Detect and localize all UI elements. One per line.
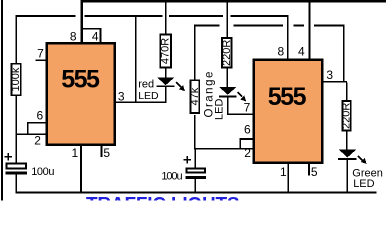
pin 7 stub U1 [35, 59, 46, 61]
pin 2 wire U2 [194, 148, 253, 150]
wire 47k to pins 2/6 U2 [194, 115, 195, 149]
svg-text:LED: LED [214, 99, 226, 120]
svg-text:8: 8 [278, 45, 285, 59]
svg-text:220R: 220R [341, 103, 353, 129]
pin 3 stub U1 [115, 101, 167, 103]
pin 5 stub U2 [308, 164, 310, 176]
wire pins 2/6 to C2 [195, 150, 196, 168]
wire pin 3 U1 riser [135, 16, 136, 103]
capacitor C1 100u [5, 153, 27, 174]
svg-text:8: 8 [70, 29, 77, 43]
wire 220R to LED D3 [346, 132, 347, 150]
wire pin3 U1 feedback top run [15, 15, 288, 17]
svg-text:5: 5 [311, 165, 318, 179]
svg-text:100k: 100k [10, 67, 22, 91]
IC U1 555 timer [47, 43, 115, 144]
label D2 Orange LED rotated [204, 70, 226, 120]
wire 100k to pins 2/6 U1 [15, 96, 16, 135]
svg-text:7: 7 [37, 47, 44, 61]
svg-text:2: 2 [244, 146, 251, 160]
svg-text:100u: 100u [161, 171, 182, 183]
svg-text:100u: 100u [31, 166, 54, 178]
wire Vcc to 220R R4 [227, 0, 228, 38]
wire 47k to pin 3 U2 run [194, 25, 344, 27]
svg-text:2: 2 [34, 134, 41, 148]
LED D1 red [156, 77, 185, 91]
svg-text:3: 3 [118, 89, 125, 103]
svg-text:47k: 47k [189, 87, 201, 105]
label D3 Green LED [352, 168, 383, 191]
wire C2 to ground [195, 179, 196, 192]
svg-text:6: 6 [244, 122, 251, 136]
pin 3 stub U2 [323, 81, 347, 83]
wire pin 1 U2 to ground [288, 164, 290, 192]
svg-text:red: red [138, 78, 154, 90]
svg-text:3: 3 [326, 68, 333, 82]
svg-text:4: 4 [298, 45, 305, 59]
svg-text:7: 7 [244, 100, 251, 114]
ground rail 0V [15, 191, 376, 193]
wire pin 8 to pin 4 U1 [82, 28, 101, 43]
label D1 red LED [138, 78, 159, 101]
wire pin 3 U2 to 220R R5 [346, 83, 347, 101]
wire D3 to ground [347, 160, 348, 192]
wire Vcc to pin 4 U2 [308, 2, 310, 59]
capacitor C2 100u [184, 156, 206, 179]
svg-text:4: 4 [92, 29, 99, 43]
Vcc top rail [81, 0, 386, 2]
svg-text:220R: 220R [221, 40, 233, 66]
wire Vcc to 470R [165, 0, 166, 34]
pin 6 stub U2 [239, 138, 253, 149]
resistor R4 220R [221, 38, 233, 68]
wire 220R to LED D2 [227, 69, 228, 87]
svg-text:1: 1 [280, 165, 287, 179]
wire 470R to LED D1 [165, 68, 166, 77]
svg-text:1: 1 [72, 146, 79, 160]
wire D1 cathode to pin 3 stub [165, 87, 166, 102]
resistor R5 220R [341, 101, 353, 131]
wire run down to pin 3 U2 [343, 25, 344, 82]
wire run down to 47k [194, 25, 195, 80]
LED D2 orange [219, 87, 246, 102]
resistor R2 470R [160, 35, 172, 68]
svg-text:555: 555 [268, 83, 307, 111]
svg-text:5: 5 [103, 146, 110, 160]
wire feedback run down to pin 8 U2 [287, 16, 289, 59]
svg-text:6: 6 [36, 109, 43, 123]
LED D3 green [338, 150, 367, 164]
wire Vcc to pin 8 U1 [81, 2, 83, 44]
IC U2 555 timer [254, 60, 323, 163]
wire C1 to ground [15, 174, 16, 192]
wire D2 to pin 7 U2 [227, 98, 253, 116]
resistor R1 100k [10, 64, 22, 96]
pin 2 wire U1 [15, 133, 46, 135]
pin 5 stub U1 [101, 146, 103, 158]
resistor R3 47k [189, 80, 201, 113]
svg-text:LED: LED [138, 90, 159, 102]
wire feedback run down to 100k [15, 16, 16, 64]
svg-text:LED: LED [353, 178, 374, 190]
svg-text:470R: 470R [160, 38, 172, 64]
pin 6 stub U1 [27, 122, 47, 135]
svg-text:555: 555 [61, 66, 100, 94]
wire pins 2/6 to C1 [15, 135, 16, 163]
wire pin 1 U1 to ground [80, 146, 82, 192]
